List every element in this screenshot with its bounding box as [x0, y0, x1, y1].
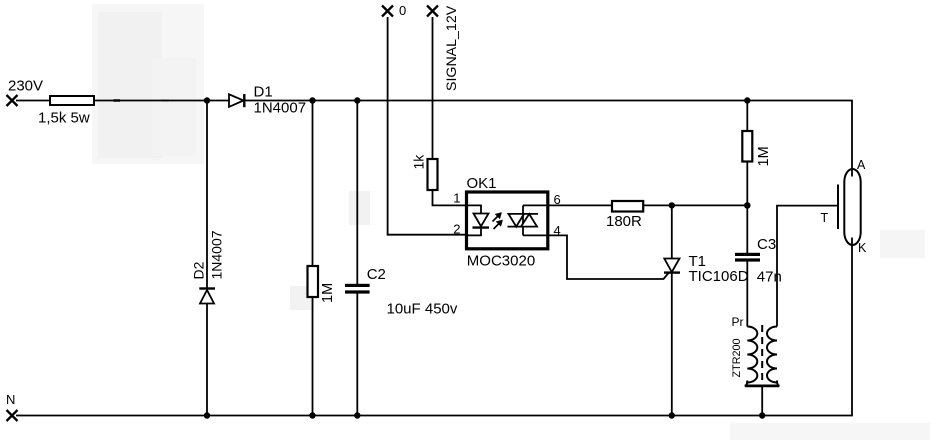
- flash tube: [844, 169, 860, 245]
- wire pin6 to 180R: [550, 204, 612, 206]
- wire C2 column: [356, 101, 358, 416]
- svg-text:OK1: OK1: [467, 175, 497, 192]
- transformer bottom bar: [745, 381, 780, 386]
- svg-text:N: N: [6, 392, 15, 407]
- terminal 230V: [7, 95, 18, 106]
- svg-text:A: A: [857, 158, 866, 172]
- node 1M right top: [744, 97, 750, 103]
- trigger electrode: [837, 185, 839, 230]
- svg-text:6: 6: [554, 192, 561, 207]
- svg-text:47n: 47n: [757, 269, 782, 286]
- op-amp OK1 box: [467, 192, 548, 249]
- terminal 0: [382, 6, 393, 17]
- terminal SIGNAL_12V: [427, 6, 438, 17]
- node 1M left top: [309, 97, 315, 103]
- wire pin4 to gate: [550, 235, 669, 279]
- svg-text:T: T: [821, 211, 829, 225]
- svg-text:MOC3020: MOC3020: [467, 253, 535, 270]
- capacitor C2: [345, 284, 370, 294]
- svg-text:2: 2: [453, 222, 460, 237]
- wire 180R to C3 junction: [643, 204, 747, 206]
- svg-text:Pr: Pr: [732, 315, 744, 329]
- svg-text:SIGNAL_12V: SIGNAL_12V: [444, 5, 460, 91]
- svg-text:1: 1: [453, 191, 460, 206]
- svg-text:1k: 1k: [411, 154, 427, 170]
- node transformer bottom: [759, 412, 765, 418]
- resistor 1,5k 5w: [50, 96, 94, 105]
- node SCR cathode bottom: [669, 412, 675, 418]
- resistor 180R: [612, 201, 643, 212]
- wire signal to 1k to pin1: [433, 17, 466, 205]
- resistor 1M right: [742, 131, 752, 162]
- node C2 bottom: [354, 412, 360, 418]
- svg-text:1M: 1M: [320, 283, 336, 303]
- diode D2: [199, 289, 215, 304]
- transformer secondary winding: [767, 327, 777, 383]
- thyristor T1: [664, 259, 680, 273]
- svg-text:0: 0: [399, 3, 406, 18]
- wire 1M left column: [312, 101, 314, 416]
- wire 1M right column: [746, 101, 748, 206]
- wire top rail mid: [94, 100, 229, 102]
- svg-text:1N4007: 1N4007: [254, 100, 307, 117]
- svg-text:D2: D2: [191, 261, 207, 279]
- svg-text:TIC106D: TIC106D: [689, 268, 749, 285]
- wire D2 column: [206, 101, 208, 416]
- wire top rail right: [246, 101, 853, 177]
- svg-text:1M: 1M: [756, 146, 772, 166]
- wire C3 column: [746, 205, 748, 326]
- wire SCR column: [671, 205, 673, 415]
- resistor 1M left: [308, 266, 319, 297]
- transformer primary winding: [747, 327, 757, 383]
- terminal N: [7, 410, 18, 421]
- svg-text:C3: C3: [757, 236, 776, 253]
- svg-text:10uF 450v: 10uF 450v: [387, 301, 458, 318]
- svg-text:ZTR200: ZTR200: [731, 338, 743, 377]
- node C3 top: [744, 202, 751, 209]
- wire bottom rail: [16, 245, 852, 416]
- diode D1: [229, 94, 244, 107]
- svg-text:1,5k 5w: 1,5k 5w: [38, 110, 90, 127]
- wire top rail left: [16, 100, 50, 102]
- svg-text:230V: 230V: [8, 78, 43, 95]
- node 1M left bottom: [309, 412, 315, 418]
- transformer core: [761, 325, 763, 384]
- node SCR anode: [669, 202, 675, 208]
- node D2 top: [204, 97, 210, 103]
- wire flashtube cathode inner: [851, 238, 853, 246]
- svg-text:1N4007: 1N4007: [209, 230, 225, 279]
- svg-text:D1: D1: [254, 84, 273, 101]
- node D2 bottom: [204, 412, 210, 418]
- svg-text:C2: C2: [367, 266, 386, 283]
- svg-text:180R: 180R: [606, 213, 642, 230]
- wire transformer bottom lead: [761, 387, 763, 416]
- triac inside OK1: [508, 205, 551, 235]
- svg-text:4: 4: [554, 223, 561, 238]
- svg-text:K: K: [858, 241, 867, 255]
- wire 0 net to pin2: [388, 17, 465, 235]
- LED inside OK1: [468, 205, 489, 235]
- capacitor C3: [735, 253, 760, 262]
- node C2 top: [354, 97, 360, 103]
- LED arrows: [493, 213, 503, 229]
- wire trigger net: [777, 206, 838, 327]
- resistor 1k: [428, 159, 438, 190]
